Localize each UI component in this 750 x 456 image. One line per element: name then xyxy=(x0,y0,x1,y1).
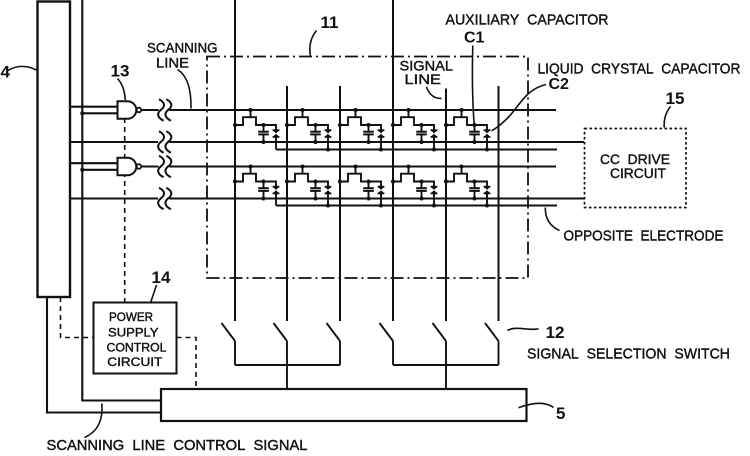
signal line S4 xyxy=(392,0,394,321)
dashed control line through NAND gates down to power supply box xyxy=(124,118,126,302)
signal line S6 xyxy=(498,86,500,321)
TFT transistor Q12 xyxy=(285,108,318,127)
power supply control circuit text xyxy=(107,310,167,369)
svg-text:CIRCUIT: CIRCUIT xyxy=(107,355,163,369)
svg-text:15: 15 xyxy=(666,89,685,108)
switch group bus 1 xyxy=(235,364,340,366)
liquid crystal capacitor C2 pixel 13 xyxy=(369,125,385,152)
scanning line 1 (right of break to panel) xyxy=(169,109,556,111)
auxiliary capacitor C1 pixel 21 xyxy=(258,182,269,201)
pixel matrix box (11) dash-dot border xyxy=(207,57,528,279)
TFT transistor Q21 xyxy=(233,164,266,183)
svg-text:4: 4 xyxy=(1,63,11,82)
leader for label 15 xyxy=(664,107,670,128)
scanning line 2 (right of break to panel) xyxy=(169,165,556,167)
TFT transistor Q22 xyxy=(285,164,318,183)
TFT transistor Q11 xyxy=(233,108,266,127)
TFT transistor Q15 xyxy=(444,108,477,127)
signal selection switch SW2 xyxy=(274,323,288,365)
wire bus2 to signal driver xyxy=(445,365,447,389)
svg-text:SIGNAL SELECTION SWITCH: SIGNAL SELECTION SWITCH xyxy=(527,347,730,363)
svg-text:C1: C1 xyxy=(464,30,485,47)
leader for SCANNING LINE CONTROL SIGNAL xyxy=(85,404,103,438)
line break symbol on scan line 1 xyxy=(158,99,171,121)
NAND gate 13a xyxy=(118,101,142,119)
svg-text:5: 5 xyxy=(556,404,565,423)
svg-text:12: 12 xyxy=(546,323,565,342)
TFT transistor Q14 xyxy=(391,108,424,127)
leader for OPPOSITE ELECTRODE xyxy=(545,208,559,231)
opposite electrode line 2 xyxy=(276,205,557,207)
auxiliary capacitor C1 pixel 14 xyxy=(416,125,427,144)
svg-text:SCANNING: SCANNING xyxy=(147,40,218,56)
signal line S3 xyxy=(339,86,341,321)
scanning driver block (4) xyxy=(38,2,71,298)
caption SIGNAL LINE xyxy=(400,58,454,88)
svg-text:OPPOSITE ELECTRODE: OPPOSITE ELECTRODE xyxy=(564,229,724,245)
liquid crystal capacitor C2 pixel 11 xyxy=(264,125,280,150)
signal selection switch SW4 xyxy=(380,323,394,365)
line break symbol on scan line 2 xyxy=(158,156,171,178)
TFT transistor Q13 xyxy=(338,108,371,127)
storage common line 1 xyxy=(70,141,158,143)
NAND gate 13a input wires xyxy=(70,107,118,116)
liquid crystal capacitor C2 pixel 25 xyxy=(475,182,491,208)
wire from driver bottom to bottom driver bar xyxy=(47,297,160,413)
signal selection switch SW3 xyxy=(327,323,341,365)
liquid crystal capacitor C2 pixel 15 xyxy=(475,125,491,152)
line break symbol on common line 2 xyxy=(158,188,171,210)
auxiliary capacitor C1 pixel 24 xyxy=(416,182,427,201)
NAND gate 13b xyxy=(118,158,142,176)
NAND gate 13a output wire xyxy=(141,109,158,111)
auxiliary capacitor C1 pixel 25 xyxy=(469,182,480,201)
opposite electrode line 1 xyxy=(276,149,557,151)
svg-text:SCANNING LINE CONTROL SIGNA: SCANNING LINE CONTROL SIGNAL xyxy=(47,438,308,451)
leader for label 14 xyxy=(151,285,157,302)
CC drive circuit text xyxy=(600,151,670,181)
leader for C2 xyxy=(492,85,547,131)
signal line S1 xyxy=(234,0,236,321)
svg-text:C2: C2 xyxy=(549,76,570,93)
liquid crystal capacitor C2 pixel 24 xyxy=(422,182,438,208)
CC drive circuit box (15) xyxy=(585,129,687,208)
TFT transistor Q25 xyxy=(444,164,477,183)
storage common line 2 xyxy=(70,198,158,200)
liquid crystal capacitor C2 pixel 12 xyxy=(316,125,332,152)
caption SCANNING LINE xyxy=(147,40,218,71)
auxiliary capacitor C1 pixel 22 xyxy=(310,182,321,201)
svg-text:AUXILIARY CAPACITOR: AUXILIARY CAPACITOR xyxy=(446,13,609,29)
auxiliary capacitor C1 pixel 23 xyxy=(363,182,374,201)
svg-text:SUPPLY: SUPPLY xyxy=(108,325,159,339)
power supply control circuit box (14) xyxy=(94,303,177,374)
leader for label 13 xyxy=(118,79,126,101)
leader for label 4 xyxy=(8,66,37,70)
NAND gate 13b output wire xyxy=(141,165,158,167)
svg-text:CIRCUIT: CIRCUIT xyxy=(610,165,666,181)
TFT transistor Q24 xyxy=(391,164,424,183)
liquid crystal capacitor C2 pixel 23 xyxy=(369,182,385,208)
vertical bus wire right of driver xyxy=(82,0,160,401)
liquid crystal capacitor C2 pixel 22 xyxy=(316,182,332,208)
svg-text:LINE: LINE xyxy=(156,55,189,71)
auxiliary capacitor C1 pixel 13 xyxy=(363,125,374,144)
svg-text:13: 13 xyxy=(111,62,130,81)
leader for SIGNAL LINE xyxy=(427,87,442,98)
signal line S2 xyxy=(286,86,288,321)
line break symbol on common line 1 xyxy=(158,131,171,153)
auxiliary capacitor C1 pixel 11 xyxy=(258,125,269,144)
leader for C1 xyxy=(472,46,474,127)
svg-text:14: 14 xyxy=(152,268,171,287)
signal selection switch SW6 xyxy=(485,323,499,365)
svg-text:LINE: LINE xyxy=(405,71,442,87)
leader for SCANNING LINE xyxy=(178,70,192,109)
leader for label 5 xyxy=(519,403,554,407)
leader for label 11 xyxy=(310,31,317,56)
dashed wire power supply box to signal driver bar xyxy=(177,338,197,390)
svg-text:11: 11 xyxy=(321,13,339,32)
liquid crystal capacitor C2 pixel 14 xyxy=(422,125,438,152)
signal driver bar (5) xyxy=(161,389,527,421)
signal line S5 xyxy=(445,89,447,322)
dashed wire driver to power supply box xyxy=(61,297,94,338)
liquid crystal capacitor C2 pixel 21 xyxy=(264,182,280,206)
auxiliary capacitor C1 pixel 12 xyxy=(310,125,321,144)
signal selection switch SW1 xyxy=(222,323,236,365)
TFT transistor Q23 xyxy=(338,164,371,183)
leader for label 12 xyxy=(508,328,539,330)
wire bus1 to signal driver xyxy=(286,365,288,389)
signal selection switch SW5 xyxy=(433,323,447,365)
NAND gate 13b input wires xyxy=(70,163,118,172)
auxiliary capacitor C1 pixel 15 xyxy=(469,125,480,144)
svg-text:CONTROL: CONTROL xyxy=(107,340,167,354)
switch group bus 2 xyxy=(393,364,499,366)
svg-text:POWER: POWER xyxy=(109,310,153,324)
